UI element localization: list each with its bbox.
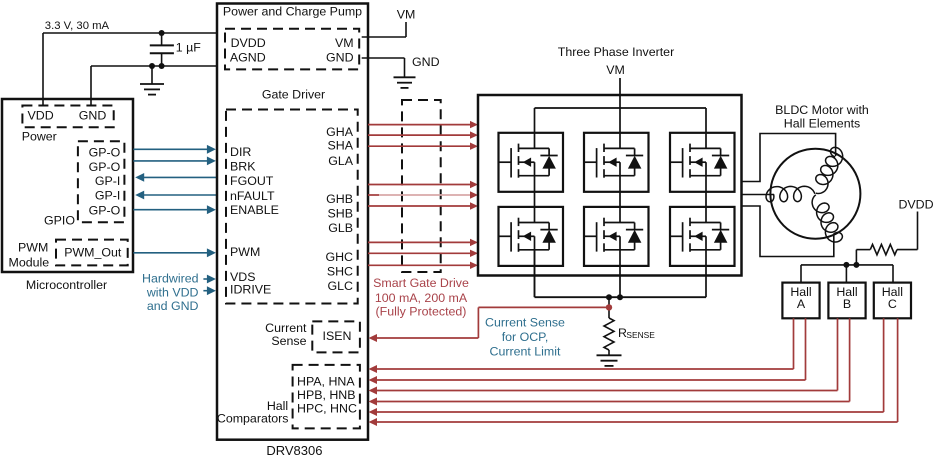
svg-text:GPIO: GPIO — [44, 214, 75, 228]
svg-text:DVDD: DVDD — [898, 198, 933, 212]
svg-text:GP-I: GP-I — [95, 174, 120, 188]
svg-text:FGOUT: FGOUT — [230, 174, 274, 188]
svg-text:GP-I: GP-I — [95, 189, 120, 203]
svg-text:GP-O: GP-O — [89, 160, 121, 174]
svg-text:Hall Elements: Hall Elements — [784, 117, 860, 131]
svg-text:with VDD: with VDD — [146, 286, 199, 300]
svg-text:ISEN: ISEN — [323, 329, 352, 343]
svg-text:Sense: Sense — [271, 334, 306, 348]
svg-text:GP-O: GP-O — [89, 204, 121, 218]
svg-text:GP-O: GP-O — [89, 146, 121, 160]
svg-text:GND: GND — [412, 55, 440, 69]
svg-text:Comparators: Comparators — [217, 412, 289, 426]
svg-text:HPA, HNA: HPA, HNA — [297, 375, 355, 389]
svg-text:SENSE: SENSE — [626, 330, 655, 340]
svg-text:3.3 V, 30 mA: 3.3 V, 30 mA — [45, 20, 110, 32]
svg-text:(Fully Protected): (Fully Protected) — [376, 305, 467, 319]
svg-text:for OCP,: for OCP, — [502, 330, 549, 344]
svg-text:GLB: GLB — [328, 221, 353, 235]
svg-text:GLA: GLA — [328, 154, 354, 168]
svg-text:DVDD: DVDD — [231, 36, 266, 50]
svg-text:PWM: PWM — [18, 241, 48, 255]
svg-text:AGND: AGND — [230, 51, 266, 65]
svg-text:VM: VM — [397, 8, 416, 22]
svg-text:A: A — [797, 297, 806, 311]
svg-text:DIR: DIR — [230, 145, 251, 159]
svg-text:Current Limit: Current Limit — [490, 345, 561, 359]
svg-text:Three Phase Inverter: Three Phase Inverter — [558, 45, 674, 59]
svg-text:Power and Charge Pump: Power and Charge Pump — [223, 5, 362, 19]
svg-text:GHA: GHA — [326, 125, 354, 139]
svg-text:BLDC Motor with: BLDC Motor with — [775, 103, 869, 117]
svg-text:DRV8306: DRV8306 — [266, 443, 322, 458]
svg-text:VDD: VDD — [28, 109, 54, 123]
svg-text:Module: Module — [9, 256, 50, 270]
svg-text:GND: GND — [79, 109, 107, 123]
svg-text:Hardwired: Hardwired — [142, 272, 199, 286]
svg-text:and GND: and GND — [147, 299, 199, 313]
svg-text:nFAULT: nFAULT — [230, 189, 275, 203]
svg-text:B: B — [843, 297, 851, 311]
svg-text:PWM_Out: PWM_Out — [64, 246, 122, 260]
svg-text:SHB: SHB — [328, 206, 353, 220]
svg-text:VM: VM — [606, 63, 625, 77]
svg-text:SHC: SHC — [327, 265, 353, 279]
svg-text:ENABLE: ENABLE — [230, 203, 279, 217]
svg-text:Current: Current — [265, 321, 307, 335]
svg-text:100 mA, 200 mA: 100 mA, 200 mA — [375, 291, 468, 305]
svg-text:PWM: PWM — [230, 245, 260, 259]
svg-text:GHB: GHB — [326, 192, 353, 206]
svg-text:GLC: GLC — [328, 279, 354, 293]
svg-text:BRK: BRK — [230, 159, 256, 173]
svg-text:1 µF: 1 µF — [176, 41, 201, 55]
svg-text:HPC, HNC: HPC, HNC — [297, 402, 357, 416]
svg-text:Power: Power — [22, 130, 57, 144]
svg-text:Current Sense: Current Sense — [485, 316, 565, 330]
svg-text:GND: GND — [326, 51, 354, 65]
svg-text:VM: VM — [335, 36, 354, 50]
svg-text:Smart Gate Drive: Smart Gate Drive — [373, 276, 469, 290]
svg-text:IDRIVE: IDRIVE — [230, 283, 271, 297]
svg-text:HPB, HNB: HPB, HNB — [297, 388, 356, 402]
svg-text:Gate Driver: Gate Driver — [262, 88, 325, 102]
svg-text:C: C — [888, 297, 897, 311]
svg-text:GHC: GHC — [325, 250, 353, 264]
svg-text:SHA: SHA — [328, 139, 354, 153]
svg-text:Microcontroller: Microcontroller — [26, 278, 107, 292]
